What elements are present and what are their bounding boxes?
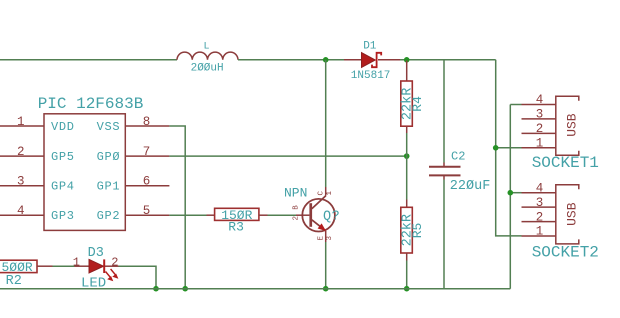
LED D3 light arrow 1 [106,272,111,278]
IC pin 6 GP1 wire [125,185,169,187]
IC pin 4 GP3 wire [0,214,44,216]
wire socket1 pin1 branch [496,147,522,149]
LED D3 cathode bar [103,259,105,273]
resistor R4 bottom pin [406,126,408,133]
diode D1 schottky cathode bar [372,53,381,67]
svg-text:R3: R3 [228,220,244,235]
IC pin 5 GP2 wire [125,214,169,216]
capacitor C2 bottom stub [443,176,445,180]
svg-text:3: 3 [326,236,334,241]
wire vertical B socket pin4 rail [509,105,511,289]
IC pin 3 GP4 wire [0,185,44,187]
svg-text:2: 2 [293,216,301,221]
svg-text:2: 2 [111,255,118,269]
svg-text:3: 3 [536,196,544,210]
svg-text:B: B [293,205,301,210]
wire C2 top branch [443,60,445,163]
svg-text:5: 5 [143,204,151,218]
resistor R3 right pin [259,214,268,216]
IC U1 PIC12F683B box [44,114,125,231]
wire socket1 pin4 branch [510,104,521,106]
svg-text:4: 4 [536,93,544,107]
socket2 pin 3 stub [522,206,556,208]
capacitor C2 top plate [429,166,461,168]
wire pin7 GP0 to R4 junction [169,155,406,157]
transistor Q1 emitter diagonal [312,220,326,231]
svg-text:1: 1 [326,191,334,196]
svg-text:3: 3 [536,108,544,122]
resistor R5 top pin [406,200,408,208]
resistor R5 bottom pin [406,253,408,261]
svg-text:2: 2 [536,122,544,136]
wire diode cathode to top-right corner [400,59,496,61]
svg-text:GPØ: GPØ [97,150,121,164]
svg-text:GP2: GP2 [97,209,121,223]
wire diode anode pin [344,59,362,61]
svg-text:2: 2 [17,145,25,159]
socket2 body bracket [556,185,579,244]
transistor Q1 base bar [309,203,312,227]
LED D3 cathode pin [105,265,119,267]
svg-text:6: 6 [143,175,151,189]
svg-text:L: L [204,42,210,53]
socket2 pin 2 stub [522,221,556,223]
resistor R4 top pin [406,61,408,82]
svg-text:D1: D1 [363,41,377,53]
junction R5 ground rail [404,286,410,292]
LED D3 anode pin [75,265,90,267]
junction LED ground rail [153,286,159,292]
wire collector vertical [325,60,327,187]
svg-text:7: 7 [143,145,151,159]
wire R2 to LED [53,265,75,267]
wire from inductor to diode [238,59,344,61]
wire diode cathode pin [378,59,400,61]
resistor R2 box (clipped at left) [0,260,37,272]
IC pin 7 GP0 wire [125,155,169,157]
resistor R2 right pin [37,265,53,267]
svg-text:R4: R4 [410,96,425,112]
IC pin 1 VDD wire [0,125,44,127]
wire pin8 to ground rail corner [169,126,185,289]
wire top-left net VIN [0,59,177,61]
socket2 pin 4 stub [522,192,556,194]
svg-text:2ØØuH: 2ØØuH [191,62,224,74]
svg-text:1N5817: 1N5817 [351,70,391,82]
diode D1 triangle [362,53,376,68]
svg-text:USB: USB [564,202,579,226]
svg-text:GP5: GP5 [51,150,75,164]
resistor R5 box [401,207,413,253]
IC pin 8 VSS wire [125,125,169,127]
svg-text:22ØuF: 22ØuF [450,179,491,194]
resistor R3 left pin [207,214,215,216]
svg-text:1: 1 [17,115,25,129]
transistor Q1 base pin [296,214,309,216]
IC pin 2 GP5 wire [0,155,44,157]
LED D3 light arrow 2 [111,269,116,275]
wire R5 to ground rail [406,261,408,289]
svg-text:SOCKET1: SOCKET1 [532,154,599,172]
wire LED to ground rail [119,266,157,289]
socket1 pin 2 stub [522,132,556,134]
svg-text:C2: C2 [451,149,465,163]
wire socket2 pin4 branch [510,192,521,194]
svg-text:USB: USB [564,113,579,137]
junction R4 bottom to GP0 [404,153,410,159]
svg-text:1: 1 [536,225,544,239]
svg-text:SOCKET2: SOCKET2 [532,244,599,262]
svg-text:5ØØR: 5ØØR [2,260,33,275]
svg-text:4: 4 [536,181,544,195]
wire C2 bottom branch [443,180,445,289]
svg-text:3: 3 [17,175,25,189]
capacitor C2 bottom plate [429,174,461,176]
junction emitter ground rail [323,286,329,292]
svg-text:4: 4 [17,204,25,218]
LED D3 triangle [89,259,104,273]
svg-text:GP4: GP4 [51,180,75,194]
svg-text:1: 1 [73,255,80,269]
junction socket2 pin4 [508,190,514,196]
svg-text:PIC 12F683B: PIC 12F683B [38,95,144,113]
svg-text:C: C [318,191,326,196]
junction pin8 ground rail [182,286,188,292]
svg-text:R2: R2 [6,274,22,289]
wire vertical A right side down to socket2 pin1 [496,60,522,236]
LED D3 light arrow 2 head [112,274,118,279]
LED D3 light arrow 1 head [107,276,113,281]
transistor Q1 emitter arrow [318,223,326,231]
wire ground rail bottom [0,288,510,290]
svg-text:R5: R5 [410,223,425,239]
svg-text:1: 1 [536,137,544,151]
svg-text:VDD: VDD [51,120,75,134]
junction top wire to transistor collector [323,57,329,63]
wire R3 to transistor base [268,214,297,216]
transistor Q1 collector diagonal [312,196,326,209]
transistor Q1 emitter pin [325,231,327,242]
wire pin5 GP2 to R3 [169,214,206,216]
svg-text:NPN: NPN [284,186,307,201]
capacitor C2 top stub [443,163,445,167]
resistor R3 box [215,208,259,220]
svg-text:8: 8 [143,115,151,129]
transistor Q1 collector pin [325,187,327,196]
socket2 pin 1 stub [522,235,556,237]
inductor L1 coil [177,52,238,60]
junction top wire to R4 [404,57,410,63]
svg-text:GP1: GP1 [97,180,121,194]
resistor R4 box [401,81,413,126]
svg-text:VSS: VSS [97,120,121,134]
svg-text:GP3: GP3 [51,209,75,223]
transistor Q1 circle [302,199,335,232]
wire R4 to junction and down [406,133,408,200]
socket1 pin 1 stub [522,147,556,149]
junction socket1 pin1 [493,145,499,151]
wire emitter to ground rail [325,242,327,289]
svg-text:Q?: Q? [323,210,340,225]
socket1 pin 4 stub [522,104,556,106]
svg-text:E: E [318,236,326,241]
svg-text:D3: D3 [88,246,104,261]
socket1 pin 3 stub [522,118,556,120]
svg-text:2: 2 [536,210,544,224]
socket1 body bracket [556,96,579,155]
